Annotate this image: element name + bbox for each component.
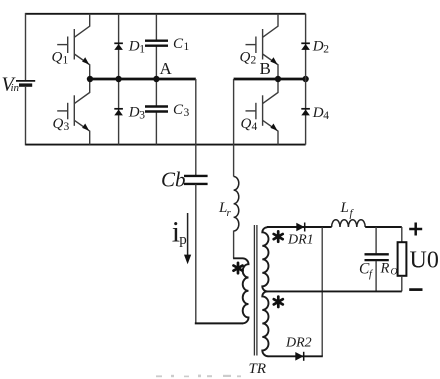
transformer core <box>254 225 257 356</box>
label DR2 <box>285 336 312 351</box>
svg-text:3: 3 <box>64 121 70 133</box>
wire rectifier junction <box>321 227 323 356</box>
diode D1 <box>114 43 123 50</box>
svg-text:A: A <box>160 59 173 78</box>
wire output bottom rail <box>267 290 402 292</box>
svg-text:4: 4 <box>252 121 258 133</box>
wire mid bus right <box>234 78 306 81</box>
polarity dot secondary bottom <box>274 297 283 307</box>
label D4 <box>312 105 330 122</box>
battery Vin <box>2 74 36 96</box>
transistor Q1 <box>57 14 89 79</box>
wire left edge upper <box>25 13 27 80</box>
label C1 <box>173 36 190 53</box>
label Lr <box>218 200 232 219</box>
label Q4 <box>241 116 258 133</box>
label Cb <box>161 168 186 192</box>
inductor Lf <box>332 220 366 227</box>
svg-text:Cb: Cb <box>161 168 186 192</box>
svg-text:Q: Q <box>52 50 63 66</box>
label TR <box>249 361 267 377</box>
transformer primary winding <box>233 258 248 323</box>
label Ro <box>380 261 398 278</box>
wire diode branch right <box>305 14 307 145</box>
label D3 <box>128 105 146 122</box>
svg-text:D: D <box>128 39 140 55</box>
label C3 <box>173 102 190 119</box>
svg-text:Q: Q <box>53 116 64 132</box>
label DR1 <box>287 233 314 248</box>
polarity dot primary <box>234 263 243 273</box>
plus terminal <box>409 223 422 236</box>
transformer secondary top winding <box>262 227 268 291</box>
svg-text:D: D <box>128 105 140 121</box>
node A <box>153 59 172 82</box>
svg-text:p: p <box>179 232 187 248</box>
svg-text:DR1: DR1 <box>287 233 314 248</box>
svg-text:Q: Q <box>241 116 252 132</box>
label Q2 <box>240 50 257 67</box>
label U0 <box>410 247 439 273</box>
svg-text:C: C <box>173 36 184 52</box>
diode DR1 <box>296 223 304 232</box>
inductor Lr <box>234 177 239 232</box>
wire top bus <box>26 13 306 15</box>
svg-text:4: 4 <box>323 110 329 122</box>
label D2 <box>312 39 330 56</box>
wire left edge lower <box>25 87 27 146</box>
diode DR2 <box>295 352 303 361</box>
capacitor C1 <box>145 41 168 46</box>
svg-text:Q: Q <box>240 50 251 66</box>
svg-text:D: D <box>312 105 324 121</box>
junction D2-D4 <box>302 76 308 82</box>
capacitor C3 <box>145 107 168 112</box>
wire capacitor branch <box>155 14 157 145</box>
svg-text:L: L <box>340 200 349 216</box>
junction D1-D3 <box>115 76 121 82</box>
transistor Q3 <box>57 79 89 145</box>
svg-text:3: 3 <box>184 107 190 119</box>
wire node B to Lr <box>233 79 235 177</box>
transistor Q4 <box>246 79 279 145</box>
resistor Ro <box>398 227 407 291</box>
svg-text:3: 3 <box>139 110 145 122</box>
diode D2 <box>301 43 310 50</box>
svg-text:2: 2 <box>251 55 257 67</box>
svg-text:1: 1 <box>184 41 190 53</box>
junction Q1-Q3 <box>87 76 93 82</box>
wire mid bus left <box>89 78 196 81</box>
svg-text:C: C <box>173 102 184 118</box>
svg-text:1: 1 <box>63 55 69 67</box>
svg-text:R: R <box>380 261 390 277</box>
diode D4 <box>301 109 310 116</box>
minus terminal <box>409 288 422 291</box>
wire Cb to primary <box>195 184 197 323</box>
capacitor Cb <box>184 176 208 184</box>
node B <box>260 59 282 82</box>
label D1 <box>128 39 146 56</box>
wire rectifier bottom rail <box>268 355 323 357</box>
svg-text:O: O <box>391 268 398 278</box>
transformer secondary bottom winding <box>262 291 268 356</box>
svg-text:f: f <box>350 208 355 220</box>
svg-text:D: D <box>312 39 324 55</box>
diode D3 <box>114 109 123 116</box>
svg-text:in: in <box>11 82 20 94</box>
label Q1 <box>52 50 69 67</box>
svg-text:1: 1 <box>139 44 145 56</box>
svg-text:r: r <box>227 207 232 219</box>
svg-text:TR: TR <box>249 361 267 377</box>
label Q3 <box>53 116 70 133</box>
capacitor Cf <box>365 227 389 291</box>
wire rectifier top rail <box>267 226 332 228</box>
svg-text:f: f <box>369 269 374 280</box>
svg-text:DR2: DR2 <box>285 336 312 351</box>
label Lf <box>340 200 355 220</box>
polarity dot secondary top <box>274 231 283 241</box>
wire primary bottom <box>195 322 243 324</box>
wire node A to Cb <box>195 79 197 175</box>
svg-text:B: B <box>260 59 271 78</box>
label Cf <box>359 261 374 281</box>
wire diode branch left <box>118 14 120 145</box>
svg-text:U0: U0 <box>410 247 439 273</box>
svg-text:2: 2 <box>323 44 329 56</box>
transistor Q2 <box>246 14 279 79</box>
caption ghost fragments <box>156 375 241 378</box>
wire Lr to primary <box>233 231 235 259</box>
wire output top rail <box>365 226 402 228</box>
wire bottom bus <box>26 144 306 146</box>
current arrow ip <box>172 213 191 264</box>
